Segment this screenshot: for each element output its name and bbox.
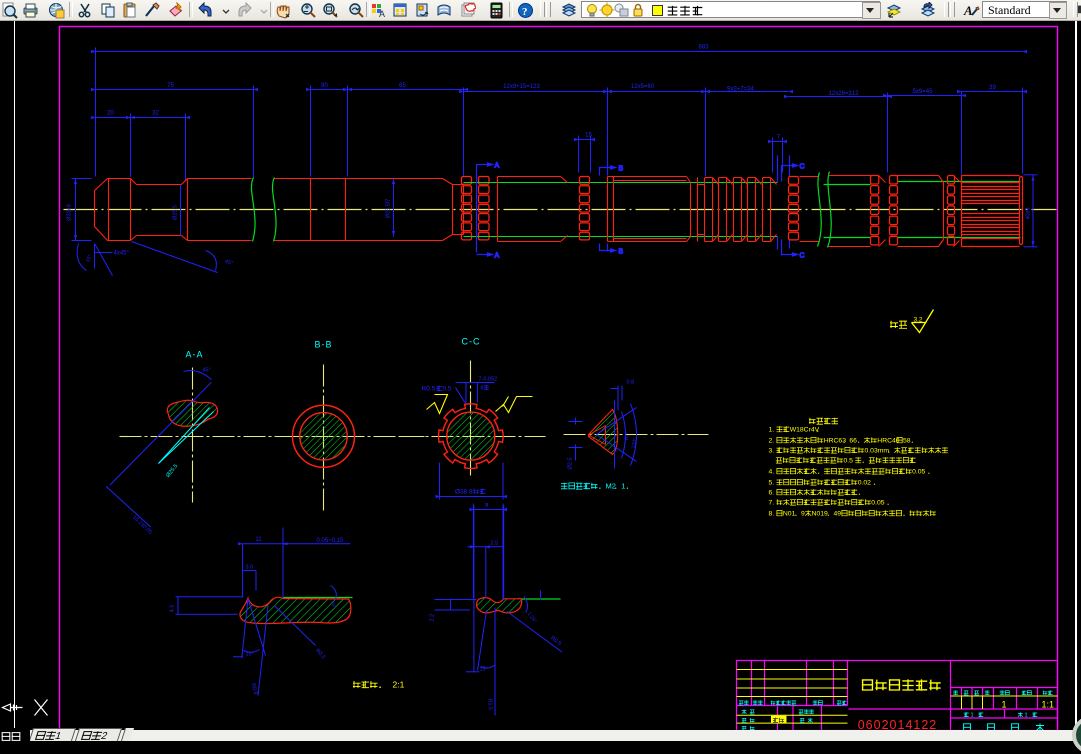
svg-text:8: 8 [481, 386, 484, 392]
dimension dim 15 15 [574, 133, 595, 142]
svg-text:9: 9 [801, 511, 805, 518]
shank dim Ø32 vertical [67, 179, 92, 241]
svg-text:4.5: 4.5 [170, 605, 176, 613]
chamfer angle 45 leader [132, 242, 234, 273]
svg-text:Ø25.5f7: Ø25.5f7 [386, 199, 392, 219]
toolbar icon pan [274, 2, 291, 19]
C-C hatched core [447, 412, 495, 460]
svg-text:0.02: 0.02 [858, 480, 871, 487]
svg-text:8.: 8. [769, 511, 775, 518]
svg-text:Ø38.8: Ø38.8 [455, 489, 473, 496]
svg-text:80: 80 [321, 83, 328, 89]
UCS icon [3, 700, 48, 716]
toolbar icon bulb [584, 2, 601, 19]
toolbar icon lock [630, 2, 647, 19]
layout tabs [29, 728, 76, 741]
dimension dim overall 883 883 [91, 45, 1027, 54]
broach shaft left shank [95, 179, 188, 241]
dimension dim 45 5x9=45 [883, 89, 966, 97]
toolbar icon properties [370, 2, 387, 19]
toolbar icon erase [167, 2, 184, 19]
svg-text:4x45°: 4x45° [114, 251, 130, 257]
toolbar icon paste [122, 2, 139, 19]
svg-text:R0.5: R0.5 [422, 386, 436, 393]
svg-text:0.05: 0.05 [871, 500, 884, 507]
toolbar icon textstyle [963, 2, 980, 19]
svg-text:1.: 1. [769, 427, 775, 434]
teeth group 3 [789, 177, 799, 240]
layer combo box [581, 1, 880, 18]
svg-text:C: C [800, 164, 805, 171]
scale caption [353, 681, 381, 688]
svg-text:3.6: 3.6 [246, 565, 254, 571]
svg-text:N01: N01 [783, 511, 796, 518]
B-B centerlines [281, 365, 425, 511]
toolbar icon copy [100, 2, 117, 19]
svg-text:M2: M2 [606, 482, 616, 491]
toolbar icon calc [488, 2, 505, 19]
svg-text:1: 1 [621, 482, 625, 491]
layer combo arrow [862, 2, 881, 19]
toolbar icon plot [22, 2, 39, 19]
svg-text:Ø25.5: Ø25.5 [173, 205, 179, 220]
center hole caption [561, 482, 628, 491]
svg-text:HRC63: HRC63 [824, 438, 847, 445]
toolbar icon zoom-win [322, 2, 339, 19]
cutting section body 2 [608, 177, 691, 242]
toolbar icon undo [197, 2, 214, 19]
svg-text:a: a [485, 502, 489, 509]
svg-text:N019: N019 [812, 511, 828, 518]
dimension detail dim 11 11 [238, 537, 288, 545]
svg-text:883: 883 [698, 45, 709, 51]
dimension dim 32 32 [126, 111, 190, 120]
dimension extension lines [96, 48, 1023, 182]
svg-text:12x9+15=123: 12x9+15=123 [503, 84, 540, 90]
svg-text:15°: 15° [246, 652, 254, 658]
svg-text:Ø32e8: Ø32e8 [67, 204, 73, 221]
svg-text:15°: 15° [85, 254, 94, 263]
status strip [0, 730, 1081, 741]
teeth group 2 [580, 177, 590, 240]
model tab (active, dark) [0, 729, 30, 741]
svg-text:65: 65 [399, 83, 406, 89]
teeth group 6 [948, 176, 955, 245]
C-C dim a [473, 504, 503, 600]
svg-text:W18Cr4V: W18Cr4V [790, 427, 820, 434]
svg-text:A: A [495, 163, 500, 170]
toolbar icon layerprev [920, 2, 937, 19]
svg-text:120°: 120° [631, 438, 639, 449]
shaft body front section [188, 179, 464, 241]
svg-text:45°: 45° [224, 259, 234, 267]
svg-text:5x9=45: 5x9=45 [913, 89, 934, 95]
svg-text:2.5: 2.5 [491, 541, 499, 547]
rear guide spline section [962, 176, 1023, 247]
right detail dims [435, 506, 563, 716]
teeth group 5 [890, 176, 898, 245]
spline root lines green left [464, 183, 778, 237]
dimension dim 80 80 [306, 83, 352, 91]
svg-text:2:1: 2:1 [393, 680, 405, 690]
svg-text:C-C: C-C [462, 337, 481, 347]
svg-text:0.5: 0.5 [443, 386, 452, 393]
title block [737, 661, 1058, 731]
toolbar icon sheetset [436, 2, 453, 19]
toolbar icon cut [77, 2, 94, 19]
toolbar icon publish [48, 2, 65, 19]
svg-text:49: 49 [834, 511, 842, 518]
toolbar icon sun [599, 2, 616, 19]
svg-text:0.05~0.15: 0.05~0.15 [317, 538, 345, 544]
toolbar icon makecurrent [886, 2, 903, 19]
svg-text:1:1: 1:1 [1042, 700, 1055, 710]
toolbar icon toolpalettes [414, 2, 431, 19]
svg-text:32: 32 [152, 111, 159, 117]
svg-text:B-B: B-B [315, 340, 333, 350]
section cut B-B marker [600, 162, 624, 256]
svg-text:12x26=312: 12x26=312 [829, 91, 860, 97]
toolbar icon undo-arrow [218, 2, 235, 19]
A-A tooth section blob [167, 400, 217, 426]
neck dim Ø25.5 [173, 185, 181, 236]
scale values yellow [1002, 700, 1055, 710]
C-C surface finish marks yellow [427, 395, 533, 414]
svg-text:45°: 45° [203, 368, 211, 374]
title main text [862, 679, 941, 690]
svg-text:3.: 3. [769, 448, 775, 455]
A-A dim lines [106, 371, 212, 528]
center hole detail centerline [564, 434, 709, 436]
toolbar icon redo-arrow [256, 2, 273, 19]
svg-text:6.: 6. [769, 490, 775, 497]
svg-text:1.25°: 1.25° [526, 611, 538, 624]
tooth profile detail right [521, 598, 561, 600]
svg-text:7: 7 [777, 135, 781, 141]
dimension dim 60 12x5=60 [603, 84, 710, 93]
canvas left edge line [14, 21, 16, 728]
svg-text:C: C [800, 253, 805, 260]
svg-text:66: 66 [849, 438, 857, 445]
svg-text:7-0.052: 7-0.052 [479, 377, 498, 383]
svg-text:1: 1 [1002, 700, 1007, 710]
style combo box [982, 1, 1067, 18]
C-C spline profile [438, 404, 503, 469]
A-A cyan wedge [159, 408, 214, 464]
technical notes [809, 418, 838, 425]
toolbar icon zoom-rt [300, 2, 317, 19]
center hole blue fan [569, 386, 637, 469]
svg-text:2.: 2. [769, 438, 775, 445]
toolbar icon redo [236, 2, 253, 19]
svg-text:Ø2.5: Ø2.5 [568, 458, 574, 470]
svg-text:4.: 4. [769, 469, 775, 476]
svg-text:58: 58 [903, 438, 911, 445]
dimension dim 123 12x9+15=123 [459, 84, 612, 93]
toolbar icon designcenter [392, 2, 409, 19]
svg-text:15: 15 [585, 133, 592, 139]
svg-text:0.05: 0.05 [912, 469, 925, 476]
title block texts [739, 700, 749, 705]
svg-text:0.8: 0.8 [627, 380, 635, 386]
svg-text:2.2: 2.2 [430, 614, 436, 622]
svg-text:B: B [619, 249, 624, 256]
toolbar icon layers [561, 2, 578, 19]
break arcs green rear [818, 172, 1021, 248]
svg-text:R1.5: R1.5 [487, 698, 493, 710]
svg-text:0.5: 0.5 [844, 458, 854, 465]
A-A centerlines [120, 368, 287, 503]
svg-text:R0.2: R0.2 [314, 648, 326, 661]
C-C dim Ø38.8 [440, 463, 504, 500]
teeth group 1b [479, 177, 490, 240]
svg-text:75: 75 [167, 83, 174, 89]
C-C centerlines [401, 361, 546, 478]
svg-text:Ø25.5: Ø25.5 [165, 463, 179, 479]
toolbar icon matchprop [144, 2, 161, 19]
toolbar icon preview [1, 2, 18, 19]
canvas right edge line [1075, 21, 1077, 728]
svg-text:HRC40: HRC40 [877, 438, 900, 445]
teeth group 4 [871, 176, 879, 245]
rear cutting body [829, 176, 960, 247]
dimension dim 39 39 [957, 85, 1027, 93]
B-B hatched core [300, 413, 347, 460]
svg-text:12x5=60: 12x5=60 [631, 84, 655, 90]
layer name [666, 2, 710, 18]
tooth profile detail left [283, 597, 353, 599]
recorder ball bottom right [1072, 716, 1081, 754]
C-C callout R0.5 [422, 385, 452, 392]
B-B outer circle [293, 405, 355, 467]
svg-text:11: 11 [255, 537, 262, 543]
svg-text:15°: 15° [480, 667, 488, 673]
toolbar icon help [517, 2, 534, 19]
svg-text:0.03mm: 0.03mm [865, 448, 890, 455]
cutting section body 1 [498, 177, 568, 242]
dimension dim 34 9x3+7=34 [701, 87, 793, 94]
surface finish symbol 其余 [890, 321, 907, 329]
svg-text:R0.5: R0.5 [549, 635, 562, 647]
dimension dim 75 75 [91, 83, 258, 91]
layer color swatch [652, 5, 663, 16]
shaft centerline [64, 209, 1057, 211]
front pilot dim Ø25.5f7 [386, 179, 396, 237]
section cut C-C marker [778, 156, 805, 260]
teeth group 1a [462, 177, 472, 240]
break lines green [251, 178, 276, 242]
rear dim 40e8 [1024, 175, 1038, 247]
toolbar end icon [1077, 4, 1081, 15]
svg-text:60°: 60° [624, 432, 632, 441]
svg-text:1: 1 [1023, 713, 1029, 719]
svg-text:5.: 5. [769, 480, 775, 487]
svg-text:15.2±0.05: 15.2±0.05 [131, 515, 153, 536]
svg-text:20: 20 [107, 111, 114, 117]
toolbar icon freeze [613, 2, 630, 19]
svg-text:B: B [619, 166, 624, 173]
dimension dim 7 7 [768, 135, 787, 144]
svg-text:3.2: 3.2 [914, 317, 923, 324]
svg-text:R0.8: R0.8 [250, 682, 259, 695]
section cut A-A marker [477, 163, 500, 260]
svg-text:39: 39 [989, 85, 996, 91]
top toolbar [0, 0, 1081, 21]
C-C tooth width dim [456, 383, 495, 403]
dimension dim 312 12x26=312 [784, 91, 892, 98]
round-tooth ring section [698, 178, 777, 242]
cutting section body 3 [800, 177, 819, 242]
svg-text:7.: 7. [769, 500, 775, 507]
dimension dim 20 20 [91, 111, 135, 120]
svg-text:40e8: 40e8 [1026, 207, 1032, 219]
svg-text:A: A [495, 253, 500, 260]
toolbar icon markup [459, 2, 476, 19]
svg-text:A-A: A-A [186, 350, 204, 360]
toolbar icon zoom-prev [348, 2, 365, 19]
svg-text:1: 1 [969, 713, 975, 719]
dimension dim 65 65 [343, 83, 468, 91]
chamfer note 4x45 [77, 244, 129, 276]
center hole cone detail [589, 410, 618, 455]
svg-text:9x3+7=34: 9x3+7=34 [727, 87, 754, 93]
